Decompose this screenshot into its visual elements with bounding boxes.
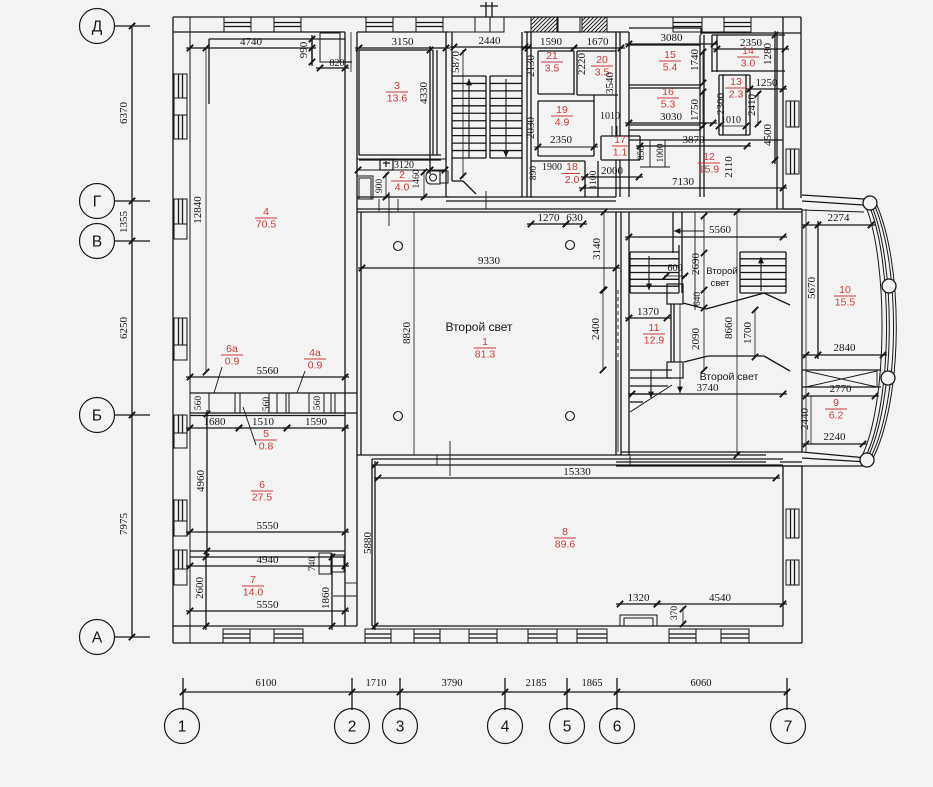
svg-text:3: 3 — [394, 80, 400, 92]
svg-text:3120: 3120 — [394, 160, 414, 171]
svg-text:20: 20 — [596, 54, 608, 66]
svg-text:4: 4 — [501, 719, 510, 736]
svg-text:7: 7 — [250, 574, 256, 586]
svg-text:2350: 2350 — [550, 134, 573, 146]
svg-text:6.2: 6.2 — [829, 410, 844, 422]
svg-text:21: 21 — [546, 50, 558, 62]
svg-text:560: 560 — [194, 396, 204, 411]
svg-text:3150: 3150 — [392, 36, 415, 48]
svg-text:15.9: 15.9 — [699, 164, 720, 176]
svg-text:4500: 4500 — [762, 124, 774, 147]
svg-text:2185: 2185 — [526, 678, 547, 689]
svg-text:8660: 8660 — [723, 317, 735, 340]
svg-text:1750: 1750 — [689, 99, 701, 122]
svg-text:2.0: 2.0 — [565, 174, 580, 186]
svg-text:11: 11 — [649, 322, 660, 334]
svg-text:13.6: 13.6 — [387, 93, 408, 105]
svg-text:600: 600 — [668, 263, 683, 274]
svg-text:1320: 1320 — [628, 592, 651, 604]
svg-text:6а: 6а — [226, 343, 238, 355]
svg-text:14: 14 — [742, 45, 754, 57]
svg-text:2840: 2840 — [834, 342, 857, 354]
svg-text:1000: 1000 — [656, 143, 666, 162]
svg-text:4330: 4330 — [418, 82, 430, 105]
svg-text:2274: 2274 — [828, 212, 851, 224]
svg-text:1010: 1010 — [721, 115, 741, 126]
svg-text:630: 630 — [566, 212, 583, 224]
svg-text:15330: 15330 — [563, 466, 591, 478]
svg-text:Второй свет: Второй свет — [445, 320, 513, 334]
svg-text:19: 19 — [556, 104, 568, 116]
svg-text:12.9: 12.9 — [644, 335, 665, 347]
svg-text:1740: 1740 — [689, 49, 701, 72]
svg-text:5: 5 — [563, 719, 572, 736]
svg-text:16: 16 — [662, 86, 674, 98]
svg-text:3740: 3740 — [697, 382, 720, 394]
svg-text:5550: 5550 — [257, 520, 280, 532]
svg-text:820: 820 — [330, 58, 345, 69]
svg-text:4: 4 — [263, 206, 269, 218]
svg-text:3080: 3080 — [661, 32, 684, 44]
svg-text:9330: 9330 — [478, 255, 501, 267]
svg-text:990: 990 — [298, 41, 310, 58]
svg-text:5560: 5560 — [709, 224, 732, 236]
svg-text:5550: 5550 — [257, 599, 280, 611]
svg-text:89.6: 89.6 — [555, 539, 576, 551]
svg-text:4.9: 4.9 — [555, 117, 570, 129]
svg-text:10: 10 — [839, 284, 851, 296]
svg-text:3.0: 3.0 — [741, 58, 756, 70]
svg-text:2400: 2400 — [590, 318, 602, 341]
svg-text:1710: 1710 — [366, 678, 387, 689]
svg-text:2090: 2090 — [690, 328, 702, 351]
svg-text:Второй: Второй — [706, 266, 737, 277]
svg-text:5.4: 5.4 — [663, 62, 678, 74]
svg-text:1010: 1010 — [600, 111, 620, 122]
svg-text:5870: 5870 — [450, 51, 462, 74]
svg-text:70.5: 70.5 — [256, 219, 277, 231]
svg-text:560: 560 — [313, 396, 323, 411]
svg-text:1700: 1700 — [742, 322, 754, 345]
svg-text:1865: 1865 — [582, 678, 603, 689]
svg-text:5.3: 5.3 — [661, 99, 676, 111]
svg-text:5670: 5670 — [806, 277, 818, 300]
svg-text:1510: 1510 — [252, 416, 275, 428]
svg-text:1460: 1460 — [412, 169, 422, 188]
svg-text:2240: 2240 — [824, 431, 847, 443]
svg-text:3790: 3790 — [442, 678, 463, 689]
svg-text:15: 15 — [664, 49, 676, 61]
svg-text:1.1: 1.1 — [613, 147, 628, 159]
svg-text:9: 9 — [833, 397, 839, 409]
svg-text:8: 8 — [562, 526, 568, 538]
svg-text:12: 12 — [703, 151, 715, 163]
svg-text:А: А — [92, 630, 103, 647]
svg-text:3140: 3140 — [591, 238, 603, 261]
svg-text:18: 18 — [566, 161, 578, 173]
svg-text:1590: 1590 — [540, 36, 563, 48]
svg-text:3.5: 3.5 — [545, 63, 560, 75]
svg-text:1355: 1355 — [118, 211, 130, 234]
svg-text:6250: 6250 — [118, 317, 130, 340]
svg-text:850: 850 — [637, 146, 647, 161]
svg-text:1370: 1370 — [637, 306, 660, 318]
svg-text:2440: 2440 — [479, 35, 502, 47]
svg-text:81.3: 81.3 — [475, 349, 496, 361]
svg-text:4а: 4а — [309, 347, 321, 359]
svg-text:4960: 4960 — [195, 470, 207, 493]
svg-text:5880: 5880 — [362, 532, 374, 555]
svg-text:Д: Д — [92, 19, 103, 36]
svg-text:В: В — [92, 234, 102, 251]
svg-text:15.5: 15.5 — [835, 297, 856, 309]
svg-text:890: 890 — [529, 166, 539, 181]
svg-text:640: 640 — [693, 292, 703, 307]
svg-text:4540: 4540 — [709, 592, 732, 604]
svg-text:4740: 4740 — [240, 36, 263, 48]
svg-text:1: 1 — [178, 719, 187, 736]
svg-text:3030: 3030 — [660, 111, 683, 123]
svg-text:740: 740 — [308, 557, 318, 572]
svg-text:1280: 1280 — [762, 43, 774, 66]
svg-text:5: 5 — [263, 428, 269, 440]
svg-text:3540: 3540 — [604, 72, 616, 95]
svg-text:0.9: 0.9 — [308, 360, 323, 372]
svg-text:0.9: 0.9 — [225, 356, 240, 368]
svg-text:7: 7 — [784, 719, 793, 736]
svg-text:2300: 2300 — [715, 93, 727, 116]
svg-text:14.0: 14.0 — [243, 587, 264, 599]
svg-text:2110: 2110 — [723, 156, 735, 178]
svg-text:2: 2 — [348, 719, 357, 736]
svg-text:1270: 1270 — [538, 212, 561, 224]
svg-text:27.5: 27.5 — [252, 492, 273, 504]
svg-text:1860: 1860 — [320, 587, 332, 610]
svg-text:1: 1 — [482, 336, 488, 348]
svg-text:12840: 12840 — [192, 196, 204, 224]
svg-text:7975: 7975 — [118, 513, 130, 536]
svg-text:2130: 2130 — [525, 55, 537, 78]
svg-text:370: 370 — [670, 606, 680, 621]
svg-text:1100: 1100 — [589, 170, 599, 189]
svg-text:1900: 1900 — [542, 162, 562, 173]
svg-text:2030: 2030 — [525, 117, 537, 140]
svg-text:0.8: 0.8 — [259, 441, 274, 453]
svg-text:2000: 2000 — [601, 165, 624, 177]
svg-text:5560: 5560 — [257, 365, 280, 377]
svg-text:6100: 6100 — [256, 678, 277, 689]
svg-text:1590: 1590 — [305, 416, 328, 428]
svg-text:13: 13 — [730, 76, 742, 88]
svg-text:3: 3 — [396, 719, 405, 736]
svg-text:4.0: 4.0 — [395, 182, 410, 194]
svg-text:3870: 3870 — [683, 134, 706, 146]
svg-text:900: 900 — [375, 179, 385, 194]
svg-text:6: 6 — [259, 479, 265, 491]
svg-text:1670: 1670 — [587, 36, 610, 48]
svg-text:2690: 2690 — [690, 253, 702, 276]
svg-text:4940: 4940 — [257, 554, 280, 566]
svg-text:2770: 2770 — [830, 383, 853, 395]
svg-text:2600: 2600 — [194, 577, 206, 600]
svg-text:Б: Б — [92, 408, 102, 425]
svg-text:8820: 8820 — [401, 322, 413, 345]
svg-text:2.3: 2.3 — [729, 89, 744, 101]
svg-text:6370: 6370 — [118, 102, 130, 125]
svg-text:2440: 2440 — [799, 408, 811, 431]
svg-text:2220: 2220 — [576, 53, 588, 76]
svg-text:560: 560 — [262, 397, 272, 412]
svg-text:6060: 6060 — [691, 678, 712, 689]
svg-text:6: 6 — [613, 719, 622, 736]
svg-text:Г: Г — [93, 194, 102, 211]
svg-text:7130: 7130 — [672, 176, 695, 188]
svg-text:свет: свет — [710, 278, 730, 289]
